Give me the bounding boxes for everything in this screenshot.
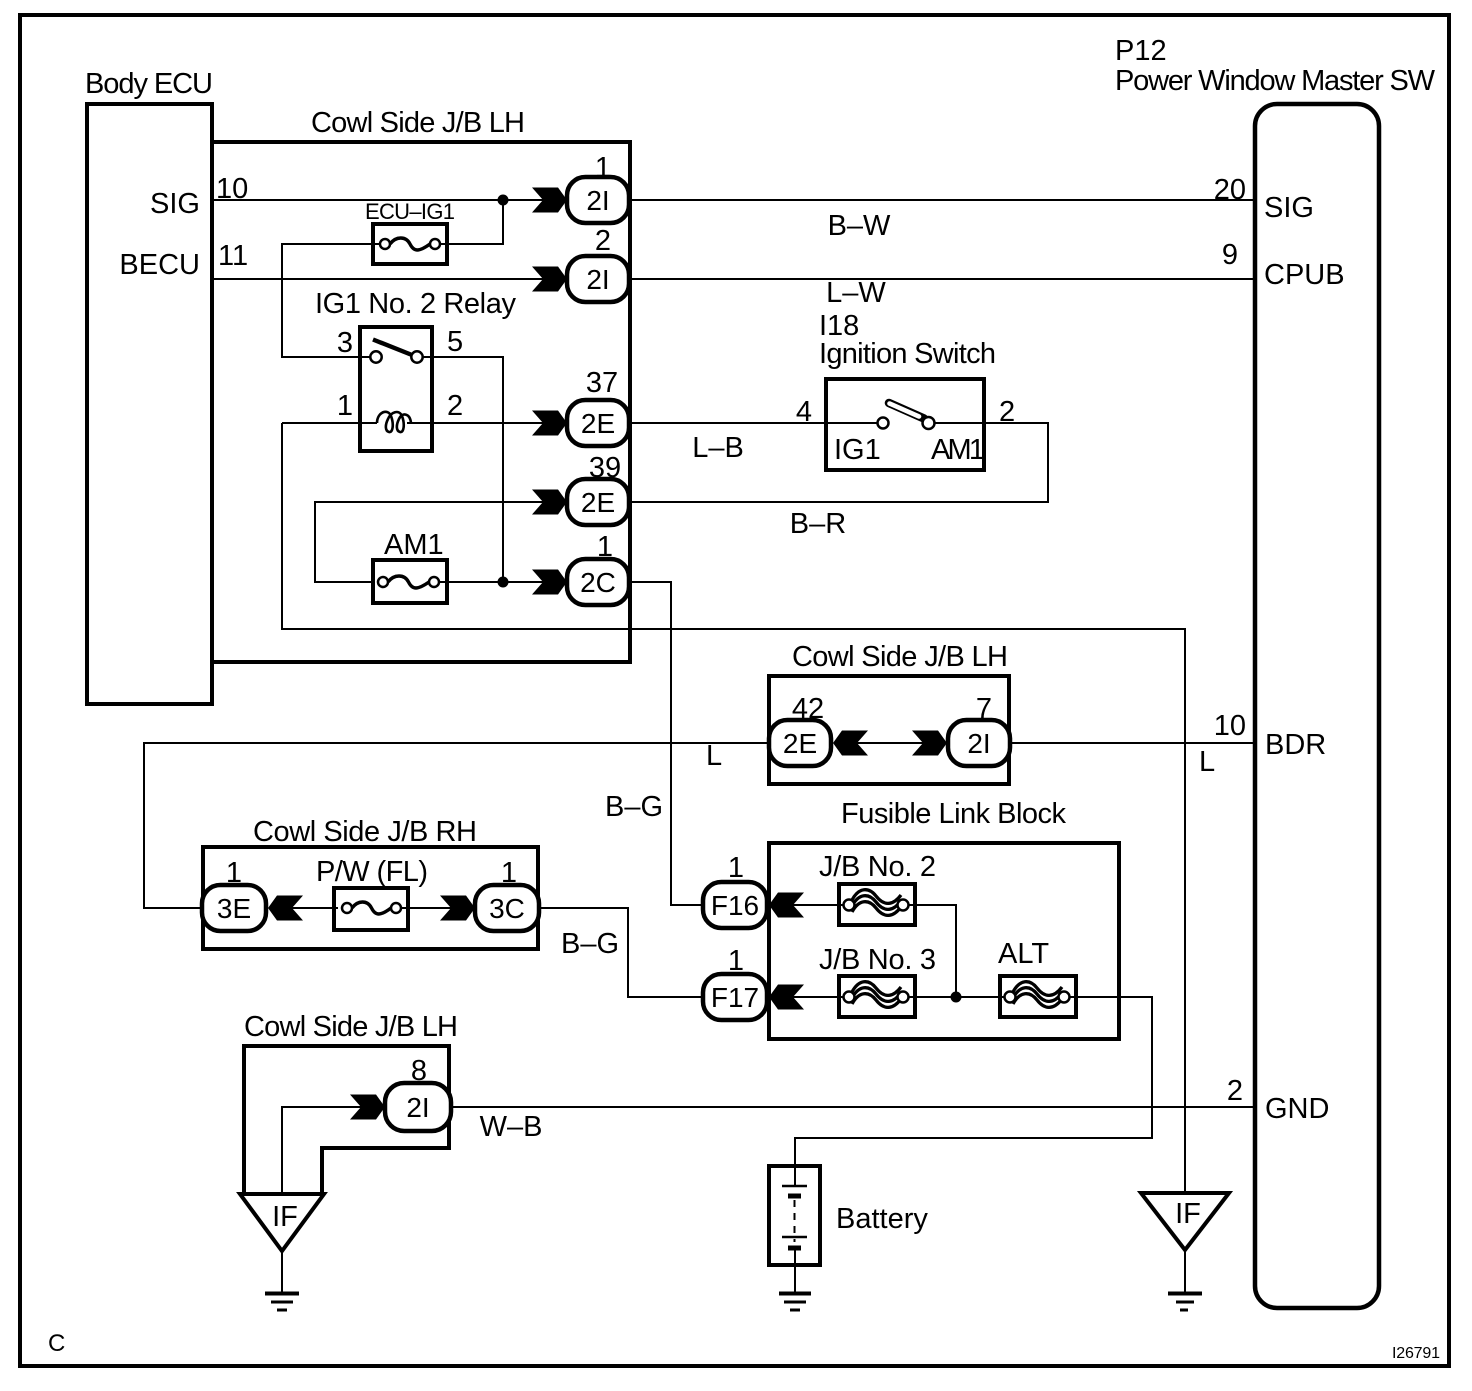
svg-text:2I: 2I <box>586 264 609 295</box>
relay IG1 No. 2 Relay <box>315 288 517 451</box>
svg-text:ALT: ALT <box>998 938 1049 970</box>
connector F17 <box>703 945 804 1020</box>
wire relay pin 5 to 2C line <box>422 357 503 582</box>
wire B-G: 3C to F17 <box>539 908 704 997</box>
svg-text:IG1 No. 2 Relay: IG1 No. 2 Relay <box>315 288 517 320</box>
fusible link J/B No. 2 <box>793 851 936 925</box>
svg-text:F17: F17 <box>711 982 759 1013</box>
svg-text:B–G: B–G <box>561 928 619 960</box>
svg-text:2: 2 <box>447 390 463 422</box>
svg-text:CPUB: CPUB <box>1264 259 1345 291</box>
svg-text:GND: GND <box>1265 1093 1329 1125</box>
svg-text:7: 7 <box>976 693 992 725</box>
svg-text:Cowl Side J/B RH: Cowl Side J/B RH <box>253 816 477 848</box>
wire 2E pin 39 feed from AM1 branch <box>315 502 544 582</box>
junction dot SIG / ECU-IG1 <box>498 195 509 206</box>
pin 20 SIG of P12 <box>1214 174 1314 224</box>
wire L: 2E pin 42 to 3E <box>144 740 769 908</box>
wire SIG pin 10 to connector 2I pin 1 <box>214 199 544 201</box>
svg-text:3C: 3C <box>489 893 525 924</box>
svg-text:20: 20 <box>1214 174 1246 206</box>
svg-text:2I: 2I <box>967 728 990 759</box>
svg-text:Cowl Side J/B LH: Cowl Side J/B LH <box>792 641 1008 673</box>
ground below battery <box>779 1294 811 1311</box>
ground IF (left) <box>240 1194 324 1310</box>
wire AM1 fuse to connector 2C <box>439 581 544 583</box>
junction block Cowl Side J/B LH (middle) <box>769 641 1009 784</box>
svg-text:AM1: AM1 <box>931 434 985 466</box>
pin 10 BDR of P12 <box>1214 710 1327 761</box>
battery <box>769 1166 928 1292</box>
connector 3E <box>202 857 303 931</box>
wire J/B No.3 to ALT <box>909 996 1004 998</box>
svg-text:1: 1 <box>728 945 744 977</box>
junction dot AM1 / relay pin 5 <box>498 577 509 588</box>
connector 2I pin 2 <box>532 225 629 302</box>
svg-text:IG1: IG1 <box>834 434 881 466</box>
wire ALT to battery <box>795 997 1152 1166</box>
fuse ECU-IG1 <box>365 199 455 264</box>
wire relay coil pin 1 input <box>282 422 377 424</box>
svg-text:2: 2 <box>1227 1075 1243 1107</box>
svg-text:SIG: SIG <box>1264 192 1314 224</box>
connector 2E pin 39 <box>532 452 629 525</box>
ignition switch I18 <box>796 310 1015 470</box>
wire ECU-IG1 fuse to SIG junction <box>440 200 503 244</box>
svg-text:BDR: BDR <box>1265 729 1326 761</box>
svg-text:1: 1 <box>597 531 613 563</box>
svg-text:IF: IF <box>272 1201 298 1233</box>
wire ECU-IG1 fuse left to relay pin 3 <box>282 244 380 357</box>
connector 2E pin 37 <box>532 367 629 446</box>
svg-text:B–G: B–G <box>605 791 663 823</box>
svg-text:2I: 2I <box>406 1092 429 1123</box>
wire J/B No.2 output to ALT line junction <box>909 905 956 997</box>
connector Body ECU <box>85 68 213 704</box>
svg-text:11: 11 <box>218 240 248 272</box>
svg-text:3E: 3E <box>217 893 251 924</box>
svg-text:ECU–IG1: ECU–IG1 <box>365 199 455 224</box>
svg-text:W–B: W–B <box>480 1111 543 1143</box>
fuse P/W (FL) <box>292 856 452 930</box>
fusible link J/B No. 3 <box>793 944 936 1017</box>
svg-text:2: 2 <box>595 225 611 257</box>
svg-text:2E: 2E <box>581 408 615 439</box>
svg-text:J/B No. 2: J/B No. 2 <box>819 851 936 883</box>
svg-text:4: 4 <box>796 396 812 428</box>
wire L / BDR: 2I pin 7 to P12 BDR <box>1010 743 1255 778</box>
connector F16 <box>703 852 804 928</box>
svg-text:SIG: SIG <box>150 188 200 220</box>
wire L-W: 2I pin2 to P12 CPUB <box>629 277 1255 309</box>
pin 10 SIG of Body ECU <box>150 173 248 220</box>
svg-text:B–R: B–R <box>790 508 846 540</box>
svg-text:42: 42 <box>792 693 824 725</box>
svg-text:2E: 2E <box>581 487 615 518</box>
svg-text:1: 1 <box>728 852 744 884</box>
connector 2C pin 1 <box>532 531 629 605</box>
pin 9 CPUB of P12 <box>1222 239 1345 291</box>
svg-text:Body ECU: Body ECU <box>85 68 213 100</box>
svg-text:3: 3 <box>337 327 353 359</box>
svg-text:1: 1 <box>595 152 611 184</box>
svg-text:BECU: BECU <box>119 249 200 281</box>
fusible link block <box>769 798 1119 1039</box>
pin 2 GND of P12 <box>1227 1075 1330 1125</box>
svg-text:Cowl Side J/B LH: Cowl Side J/B LH <box>244 1011 458 1043</box>
wire L-B: 2E pin37 to ignition switch pin 4 <box>629 423 826 464</box>
svg-text:F16: F16 <box>711 890 759 921</box>
svg-text:37: 37 <box>586 367 618 399</box>
svg-text:Cowl Side J/B LH: Cowl Side J/B LH <box>311 107 525 139</box>
svg-text:J/B No. 3: J/B No. 3 <box>819 944 936 976</box>
pin 11 BECU of Body ECU <box>119 240 248 281</box>
svg-text:B–W: B–W <box>828 210 891 242</box>
fuse AM1 <box>373 529 447 603</box>
svg-text:5: 5 <box>447 326 463 358</box>
svg-text:IF: IF <box>1175 1198 1201 1230</box>
junction dot on ALT line <box>951 992 962 1003</box>
svg-text:P12: P12 <box>1115 35 1167 67</box>
svg-text:2C: 2C <box>580 567 616 598</box>
wire between 2E 42 and 2I 7 <box>857 742 923 744</box>
label C <box>48 1330 65 1357</box>
svg-text:9: 9 <box>1222 239 1238 271</box>
connector 3C <box>440 857 539 931</box>
svg-text:1: 1 <box>501 857 517 889</box>
connector 2I pin 1 <box>532 152 629 223</box>
svg-text:C: C <box>48 1330 65 1357</box>
svg-text:2E: 2E <box>783 728 817 759</box>
svg-text:1: 1 <box>337 390 353 422</box>
connector P12 Power Window Master SW <box>1115 35 1436 1308</box>
svg-text:L: L <box>1199 746 1215 778</box>
relay coil <box>377 412 411 432</box>
junction block Cowl Side J/B RH <box>203 816 538 949</box>
svg-text:P/W (FL): P/W (FL) <box>316 856 428 888</box>
junction block Cowl Side J/B LH (bottom) <box>244 1011 458 1194</box>
svg-text:10: 10 <box>1214 710 1246 742</box>
wire B-G: 2C to F16 <box>605 582 704 905</box>
svg-text:Power Window Master SW: Power Window Master SW <box>1115 65 1436 97</box>
svg-text:8: 8 <box>411 1055 427 1087</box>
svg-text:1: 1 <box>226 857 242 889</box>
wire B-R: ignition pin 2 loop to 2E pin 39 <box>629 423 1048 540</box>
wire BECU pin 11 to connector 2I pin 2 <box>214 278 544 280</box>
svg-text:Fusible Link Block: Fusible Link Block <box>841 798 1067 830</box>
svg-text:I26791: I26791 <box>1392 1345 1440 1362</box>
wire W-B: 2I pin 8 to P12 GND <box>451 1107 1255 1143</box>
svg-text:2I: 2I <box>586 185 609 216</box>
wire B-W: 2I pin1 to P12 SIG <box>629 200 1255 242</box>
connector 2I pin 8 <box>350 1055 451 1131</box>
svg-text:L: L <box>706 740 722 772</box>
svg-text:L–W: L–W <box>826 277 886 309</box>
ground IF (right) <box>1141 1193 1229 1310</box>
wire W-B trunk: coil input down, across, to right IF ground <box>282 423 1185 1194</box>
svg-text:L–B: L–B <box>692 432 744 464</box>
connector 2I pin 7 <box>912 693 1010 766</box>
label I26791 <box>1392 1345 1440 1362</box>
svg-text:AM1: AM1 <box>384 529 444 561</box>
wire relay pin 2 to connector 2E pin 37 <box>407 422 544 424</box>
svg-text:Battery: Battery <box>836 1203 928 1235</box>
fusible link ALT <box>998 938 1076 1017</box>
svg-text:39: 39 <box>589 452 621 484</box>
junction block Cowl Side J/B LH (top) <box>212 107 630 662</box>
svg-text:Ignition Switch: Ignition Switch <box>819 338 996 370</box>
wire IF ground to connector 2I pin 8 <box>282 1107 362 1194</box>
connector 2E pin 42 <box>769 693 868 766</box>
